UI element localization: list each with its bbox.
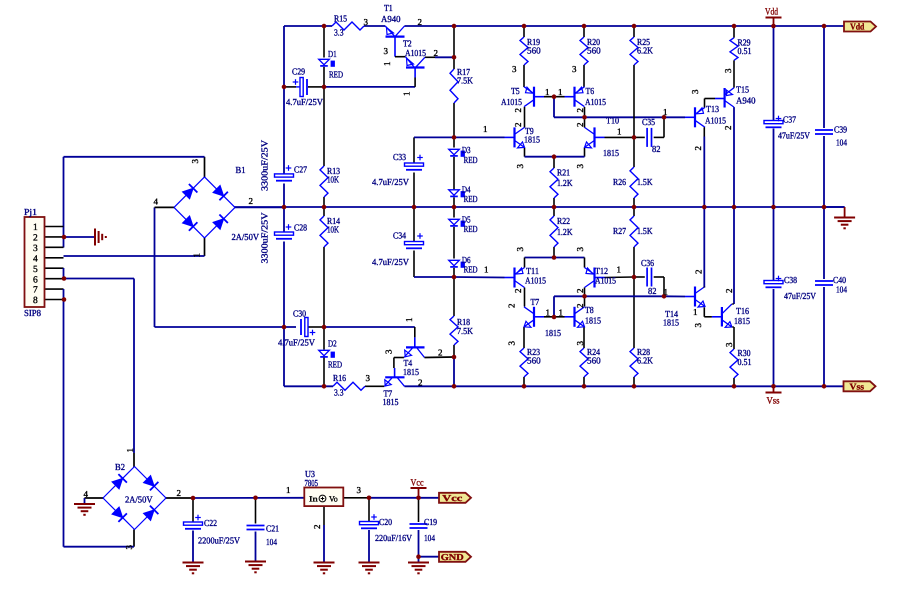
svg-text:560: 560: [587, 46, 601, 56]
svg-text:10K: 10K: [327, 225, 339, 235]
svg-text:SIP8: SIP8: [24, 308, 41, 318]
svg-text:A1015: A1015: [585, 97, 606, 107]
svg-text:1: 1: [484, 265, 489, 275]
svg-text:C38: C38: [784, 275, 797, 285]
svg-text:1: 1: [286, 485, 291, 495]
svg-text:C33: C33: [393, 152, 406, 162]
svg-text:Vcc: Vcc: [442, 493, 462, 503]
svg-text:2: 2: [33, 234, 38, 244]
svg-text:3: 3: [515, 164, 525, 169]
svg-text:1: 1: [125, 448, 135, 453]
svg-text:Vo: Vo: [329, 495, 338, 504]
svg-text:104: 104: [836, 285, 847, 295]
svg-text:3: 3: [384, 46, 389, 56]
svg-text:C19: C19: [424, 517, 437, 527]
svg-text:1: 1: [559, 308, 564, 318]
svg-text:1.2K: 1.2K: [557, 178, 573, 188]
svg-text:1.5K: 1.5K: [637, 177, 653, 187]
svg-text:R22: R22: [557, 216, 570, 226]
svg-text:0.51: 0.51: [738, 46, 752, 56]
svg-text:RED: RED: [464, 224, 478, 234]
svg-text:1: 1: [382, 62, 392, 67]
svg-text:7: 7: [33, 286, 38, 296]
svg-text:560: 560: [587, 356, 601, 366]
svg-text:R21: R21: [557, 168, 570, 178]
svg-text:Vdd: Vdd: [850, 22, 864, 32]
svg-text:2A/50V: 2A/50V: [232, 232, 260, 242]
svg-text:A1015: A1015: [501, 97, 522, 107]
svg-text:4: 4: [84, 489, 89, 499]
svg-text:3: 3: [515, 247, 525, 252]
svg-text:2: 2: [694, 270, 704, 275]
svg-text:1: 1: [617, 265, 622, 275]
svg-text:C36: C36: [641, 258, 654, 268]
svg-text:D5: D5: [462, 214, 471, 224]
svg-text:T8: T8: [585, 305, 594, 315]
svg-text:2: 2: [575, 304, 585, 309]
svg-text:T6: T6: [586, 86, 595, 96]
svg-text:2: 2: [513, 123, 523, 128]
svg-text:2: 2: [312, 525, 322, 530]
svg-text:3: 3: [366, 373, 371, 383]
svg-text:4.7uF/25V: 4.7uF/25V: [372, 177, 409, 187]
svg-text:T13: T13: [706, 104, 719, 114]
svg-text:RED: RED: [464, 155, 478, 165]
svg-text:T1: T1: [384, 3, 393, 13]
svg-text:1.2K: 1.2K: [557, 227, 573, 237]
svg-text:82: 82: [648, 286, 657, 296]
svg-text:A1015: A1015: [525, 276, 546, 286]
svg-text:3: 3: [575, 247, 585, 252]
svg-text:104: 104: [836, 138, 847, 148]
svg-text:RED: RED: [329, 70, 343, 80]
svg-text:GND: GND: [441, 552, 465, 562]
svg-text:3: 3: [572, 64, 577, 74]
svg-text:3: 3: [507, 341, 517, 346]
svg-text:2: 2: [723, 126, 733, 131]
svg-text:2: 2: [418, 17, 423, 27]
svg-text:1815: 1815: [383, 397, 399, 407]
svg-text:Vcc: Vcc: [411, 479, 424, 489]
svg-text:R16: R16: [333, 373, 346, 383]
svg-text:3.3: 3.3: [334, 388, 344, 398]
svg-text:1: 1: [617, 127, 622, 137]
svg-text:82: 82: [652, 144, 661, 154]
svg-text:5: 5: [33, 265, 38, 275]
svg-text:4: 4: [33, 254, 38, 264]
svg-text:3: 3: [693, 323, 703, 328]
svg-text:2: 2: [438, 348, 443, 358]
svg-text:C20: C20: [379, 517, 392, 527]
svg-text:1: 1: [693, 307, 698, 317]
svg-text:T15: T15: [736, 85, 749, 95]
svg-text:C30: C30: [293, 309, 306, 319]
svg-text:D4: D4: [462, 184, 471, 194]
svg-text:560: 560: [527, 46, 541, 56]
svg-text:T2: T2: [403, 39, 412, 49]
svg-text:3: 3: [357, 485, 362, 495]
svg-text:T7: T7: [531, 297, 540, 307]
svg-text:1815: 1815: [403, 367, 419, 377]
svg-text:RED: RED: [464, 265, 478, 275]
svg-text:2200uF/25V: 2200uF/25V: [198, 536, 240, 546]
svg-text:A940: A940: [736, 96, 756, 106]
svg-text:C39: C39: [834, 125, 847, 135]
svg-text:1: 1: [664, 287, 669, 297]
svg-text:1: 1: [663, 107, 668, 117]
svg-text:560: 560: [527, 356, 541, 366]
svg-text:104: 104: [266, 537, 277, 547]
svg-text:3: 3: [190, 159, 200, 164]
svg-text:2: 2: [434, 48, 439, 58]
svg-text:2: 2: [177, 488, 182, 498]
svg-text:C35: C35: [642, 117, 655, 127]
svg-text:47uF/25V: 47uF/25V: [784, 291, 816, 301]
svg-text:104: 104: [424, 533, 435, 543]
svg-text:7.5K: 7.5K: [457, 326, 473, 336]
svg-text:1: 1: [558, 87, 563, 97]
svg-text:1: 1: [546, 308, 551, 318]
svg-text:Vss: Vss: [767, 397, 780, 407]
svg-text:1: 1: [545, 87, 550, 97]
svg-text:10K: 10K: [327, 175, 339, 185]
svg-text:4.7uF/25V: 4.7uF/25V: [372, 257, 409, 267]
svg-text:3: 3: [124, 545, 134, 550]
svg-text:1: 1: [402, 92, 412, 97]
svg-text:6.2K: 6.2K: [637, 46, 653, 56]
svg-text:T12: T12: [595, 266, 608, 276]
svg-text:R15: R15: [334, 14, 347, 24]
svg-text:2: 2: [575, 123, 585, 128]
svg-text:3: 3: [33, 244, 38, 254]
svg-text:C40: C40: [833, 275, 846, 285]
svg-text:3: 3: [364, 17, 369, 27]
svg-text:6: 6: [33, 275, 38, 285]
svg-text:R26: R26: [613, 177, 626, 187]
svg-text:3300uF/25V: 3300uF/25V: [260, 212, 270, 263]
svg-text:1815: 1815: [585, 316, 601, 326]
svg-text:1815: 1815: [545, 328, 561, 338]
svg-text:3: 3: [723, 68, 733, 73]
svg-text:7805: 7805: [305, 478, 319, 488]
svg-text:C37: C37: [783, 115, 796, 125]
svg-text:C22: C22: [204, 518, 217, 528]
svg-text:3: 3: [384, 349, 394, 354]
svg-text:2: 2: [249, 196, 254, 206]
svg-text:B1: B1: [236, 165, 246, 175]
svg-text:3300uF/25V: 3300uF/25V: [260, 140, 270, 191]
svg-text:4.7uF/25V: 4.7uF/25V: [286, 97, 323, 107]
svg-text:2: 2: [513, 108, 523, 113]
svg-text:2: 2: [507, 304, 517, 309]
svg-text:8: 8: [33, 296, 38, 306]
svg-text:1: 1: [33, 223, 38, 233]
svg-text:C21: C21: [266, 524, 279, 534]
svg-text:1815: 1815: [524, 135, 540, 145]
svg-text:3: 3: [690, 89, 700, 94]
svg-text:A940: A940: [381, 14, 401, 24]
svg-text:3: 3: [575, 341, 585, 346]
svg-text:2: 2: [513, 289, 523, 294]
svg-text:4: 4: [154, 197, 159, 207]
svg-text:3: 3: [575, 164, 585, 169]
svg-text:47uF/25V: 47uF/25V: [778, 131, 810, 141]
svg-text:T5: T5: [511, 86, 520, 96]
svg-text:T16: T16: [736, 306, 749, 316]
svg-text:D1: D1: [328, 49, 337, 59]
svg-text:T10: T10: [606, 116, 619, 126]
svg-text:1: 1: [483, 124, 488, 134]
svg-text:C29: C29: [292, 67, 305, 77]
svg-text:In: In: [309, 495, 318, 504]
svg-text:220uF/16V: 220uF/16V: [375, 533, 412, 543]
svg-text:2: 2: [724, 289, 734, 294]
svg-text:1: 1: [192, 253, 202, 258]
svg-text:1815: 1815: [663, 318, 679, 328]
svg-text:6.2K: 6.2K: [637, 356, 653, 366]
svg-text:C27: C27: [294, 165, 307, 175]
svg-text:3: 3: [512, 64, 517, 74]
svg-text:Vss: Vss: [850, 382, 865, 392]
svg-text:C28: C28: [294, 223, 307, 233]
svg-text:2: 2: [575, 289, 585, 294]
svg-text:2: 2: [693, 146, 703, 151]
svg-text:2: 2: [418, 378, 423, 388]
svg-text:4.7uF/25V: 4.7uF/25V: [278, 338, 315, 348]
svg-text:D3: D3: [462, 145, 471, 155]
svg-text:A1015: A1015: [595, 276, 616, 286]
svg-text:3.3: 3.3: [334, 28, 344, 38]
svg-text:2A/50V: 2A/50V: [125, 495, 153, 505]
svg-text:A1015: A1015: [705, 116, 726, 126]
svg-text:1: 1: [404, 318, 414, 323]
svg-text:Pj1: Pj1: [24, 207, 37, 217]
svg-text:R27: R27: [613, 226, 626, 236]
svg-text:C34: C34: [393, 231, 406, 241]
svg-text:RED: RED: [464, 194, 478, 204]
svg-text:3: 3: [724, 342, 734, 347]
svg-text:2: 2: [575, 108, 585, 113]
svg-text:RED: RED: [328, 360, 342, 370]
svg-text:D2: D2: [328, 339, 337, 349]
svg-text:7.5K: 7.5K: [457, 76, 473, 86]
svg-text:1815: 1815: [603, 148, 619, 158]
svg-text:A1015: A1015: [405, 48, 426, 58]
svg-text:B2: B2: [115, 462, 125, 472]
svg-text:1815: 1815: [734, 316, 750, 326]
svg-text:T11: T11: [526, 266, 539, 276]
svg-text:1.5K: 1.5K: [637, 226, 653, 236]
svg-text:0.51: 0.51: [738, 357, 752, 367]
svg-text:D6: D6: [462, 255, 471, 265]
svg-text:Vdd: Vdd: [765, 8, 778, 18]
